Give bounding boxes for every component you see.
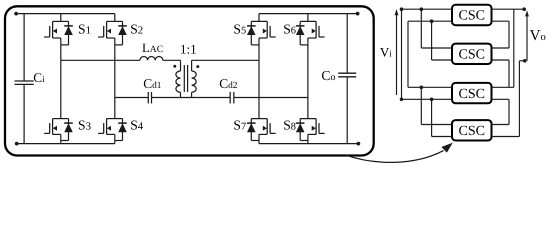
svg-text:LAC: LAC [142,41,163,55]
svg-text:CSC: CSC [459,87,485,102]
svg-text:S1: S1 [78,22,91,37]
svg-text:1:1: 1:1 [180,41,197,56]
svg-text:S2: S2 [130,22,143,37]
svg-text:CSC: CSC [459,9,485,24]
svg-text:S3: S3 [78,118,91,133]
svg-text:CSC: CSC [459,48,485,63]
svg-text:S4: S4 [130,118,144,133]
svg-text:CSC: CSC [459,124,485,139]
